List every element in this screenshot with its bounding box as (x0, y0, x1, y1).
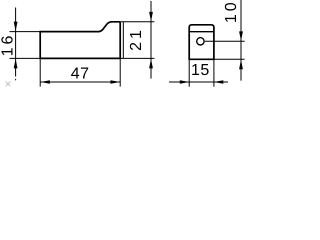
arrow 10 upper (239, 31, 243, 41)
extension line from hole centre (10 dim) (205, 40, 245, 42)
arrow 15 left (180, 80, 190, 84)
arrow 21 top (149, 12, 153, 22)
dimension line 21 (150, 1, 152, 79)
extension line bottom (21 dim) (120, 57, 154, 59)
arrow 15 right (214, 80, 224, 84)
edge line (bar top height) (189, 31, 214, 33)
arrow 47 left (40, 80, 50, 84)
dimension line 16 (15, 8, 17, 77)
extension line right (47 dim) (119, 58, 121, 86)
extension line right (15 dim) (213, 59, 215, 86)
svg-text:15: 15 (191, 62, 210, 79)
arrow 16 top (14, 22, 18, 32)
extension line top (21 dim) (120, 21, 154, 23)
svg-text:16: 16 (0, 33, 17, 57)
extension line bottom (16 dim) (10, 57, 41, 59)
part front-view outline (189, 25, 214, 60)
extension line top (16 dim) (10, 31, 41, 33)
extension line left (47 dim) (39, 58, 41, 86)
hole (197, 38, 204, 45)
extension line left (15 dim) (188, 59, 190, 86)
dimension line 10 (240, 0, 242, 81)
dimension line 15 (169, 81, 228, 83)
arrow 47 right (111, 80, 121, 84)
arrow 21 bottom (149, 59, 153, 69)
part side-view outline (40, 22, 120, 59)
dimension line 16 lower remnant (15, 79, 17, 80)
inner connector line 21 (122, 22, 124, 59)
arrow 16 bottom (14, 59, 18, 69)
svg-text:21: 21 (128, 27, 145, 51)
faint mark bottom left (6, 82, 11, 87)
arrow 10 lower (239, 60, 243, 70)
extension line from bottom edge (10 dim) (214, 58, 245, 60)
dimension line 47 (40, 81, 120, 83)
svg-text:10: 10 (223, 0, 240, 23)
svg-text:47: 47 (71, 66, 90, 83)
